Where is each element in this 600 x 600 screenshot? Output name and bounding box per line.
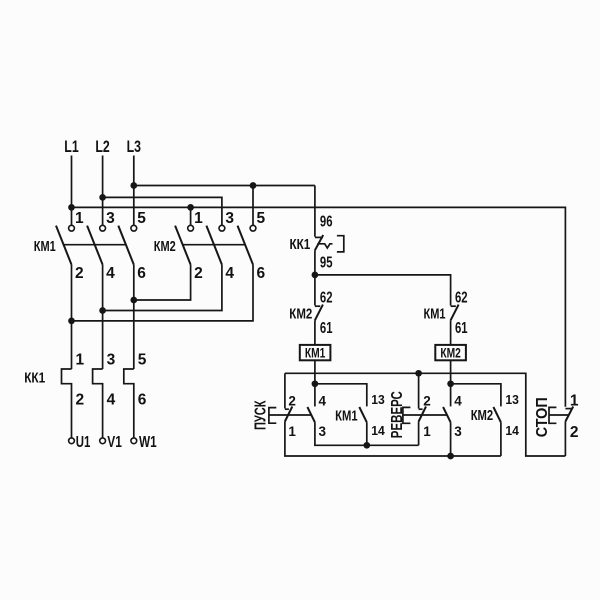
- KM1 contact terminal circle 5: [131, 225, 137, 231]
- junction REVERS NO to bus B: [447, 453, 454, 460]
- svg-text:КК1: КК1: [24, 369, 45, 386]
- KM2 contact blade 3-4: [206, 226, 222, 265]
- svg-text:3: 3: [225, 210, 234, 227]
- wire node95 to KM2 coil branch: [315, 275, 451, 306]
- relay contact KK1 96-95 top wire: [314, 186, 316, 237]
- KM1 contact blade 1-2: [56, 226, 72, 265]
- wire KM1 coil to start node: [314, 360, 316, 384]
- KM1 contact terminal circle 3: [100, 225, 106, 231]
- PUSK NO bottom wire to bus A: [315, 422, 419, 445]
- svg-text:3: 3: [454, 424, 462, 439]
- KM2 contact blade 1-2: [175, 226, 191, 265]
- wire KM1 coil node to aux branch: [315, 384, 367, 407]
- KK1 heater element phase A: [62, 369, 72, 438]
- svg-text:4: 4: [107, 392, 116, 409]
- svg-text:V1: V1: [107, 434, 122, 451]
- svg-text:6: 6: [137, 265, 146, 282]
- KM1 interlock bottom wire: [450, 320, 452, 345]
- STOP NC seat tick: [565, 408, 572, 410]
- REVERS NO blade: [443, 407, 451, 422]
- svg-text:5: 5: [138, 352, 147, 369]
- svg-text:4: 4: [319, 393, 327, 408]
- KM1 contact blade 3-4: [87, 226, 103, 265]
- svg-text:4: 4: [106, 265, 115, 282]
- REVERS NO bottom wire: [450, 422, 452, 456]
- KM2 interlock blade: [315, 305, 323, 321]
- wire control top rail to stop return: [285, 373, 566, 456]
- svg-text:62: 62: [320, 290, 333, 307]
- PUSK actuator rod: [269, 414, 312, 416]
- KM1 linkage bar: [64, 244, 126, 246]
- svg-text:КМ2: КМ2: [471, 407, 494, 424]
- KK1 thermal release linkage: [317, 244, 332, 248]
- KM2 aux blade: [493, 407, 501, 422]
- svg-text:КМ1: КМ1: [34, 238, 56, 255]
- wire L2 bus to KM2 pin3: [103, 197, 222, 225]
- KK1 thermal release bracket: [337, 236, 344, 252]
- KK1 heater element phase B: [93, 369, 103, 438]
- REVERS NO contact top wire: [450, 384, 452, 407]
- junction KM2 coil node: [447, 380, 454, 387]
- svg-text:14: 14: [505, 423, 519, 438]
- REVERS NC contact top wire: [418, 373, 420, 408]
- wire L1 vertical drop: [71, 156, 73, 226]
- svg-text:13: 13: [505, 392, 519, 407]
- STOP actuator rod: [549, 414, 568, 416]
- junction KM1 aux to bus A: [363, 442, 370, 449]
- junction KM1 coil node: [312, 380, 319, 387]
- KM1 aux bottom wire: [366, 422, 368, 445]
- wire KM2 out 4 crossover to phase B: [103, 265, 222, 311]
- svg-text:2: 2: [288, 393, 296, 408]
- svg-text:4: 4: [225, 265, 234, 282]
- REVERS NC seat tick: [419, 408, 423, 410]
- junction top rail to REVERS NC: [415, 370, 422, 377]
- junction crossover at phase B: [99, 307, 106, 314]
- REVERS NC bottom wire: [418, 422, 420, 446]
- wire L3 vertical drop: [133, 156, 135, 226]
- PUSK NC bottom wire to bus B: [285, 422, 501, 457]
- wire KM1 out phase A down: [71, 265, 73, 369]
- svg-text:L1: L1: [64, 137, 78, 156]
- svg-text:U1: U1: [76, 434, 91, 451]
- wire KM2 pin5 drop: [252, 186, 254, 226]
- KM1 contact terminal circle 1: [69, 225, 75, 231]
- svg-text:КМ1: КМ1: [305, 345, 326, 361]
- wire L1 bus to STOP column: [72, 207, 566, 406]
- svg-text:W1: W1: [139, 434, 157, 451]
- wire KM2 pin1 drop: [190, 207, 192, 225]
- svg-text:3: 3: [106, 210, 115, 227]
- wire KM2 out 6 crossover to phase A: [72, 265, 254, 321]
- svg-text:2: 2: [76, 392, 85, 409]
- motor terminal circle W1: [131, 438, 137, 444]
- coil KM1 box: [300, 345, 331, 360]
- KM2 contact terminal circle 5: [250, 225, 256, 231]
- STOP NC bottom wire: [564, 422, 566, 457]
- svg-text:96: 96: [320, 213, 333, 230]
- KM2 linkage bar: [183, 244, 246, 246]
- junction crossover at phase A: [68, 318, 75, 325]
- motor terminal circle U1: [69, 438, 75, 444]
- wire L2 vertical drop: [102, 156, 104, 226]
- KM2 contact terminal circle 1: [188, 225, 194, 231]
- wire KM2 coil node to aux branch: [451, 384, 501, 407]
- KM2 interlock seat tick: [315, 305, 320, 307]
- svg-text:6: 6: [257, 265, 266, 282]
- junction L1 bus to KM2 pin1: [187, 204, 194, 211]
- KK1 contact seat tick: [315, 236, 323, 238]
- svg-text:1: 1: [288, 424, 296, 439]
- PUSK NC seat tick: [285, 408, 289, 410]
- PUSK NC contact top wire: [284, 373, 286, 408]
- junction L3 bus at L3 drop: [130, 182, 137, 189]
- svg-text:2: 2: [570, 424, 579, 441]
- junction L3 bus to KM2 pin5: [250, 182, 257, 189]
- svg-text:КМ2: КМ2: [154, 238, 176, 255]
- svg-text:1: 1: [76, 352, 85, 369]
- svg-text:1: 1: [423, 424, 431, 439]
- svg-text:L3: L3: [127, 137, 141, 156]
- KM2 interlock bottom wire: [314, 320, 316, 345]
- interlock contact KM2 61-62 top wire: [314, 275, 316, 306]
- svg-text:КМ2: КМ2: [440, 345, 461, 361]
- svg-text:1: 1: [570, 392, 579, 409]
- svg-text:6: 6: [138, 392, 147, 409]
- KK1 contact blade: [315, 235, 323, 250]
- svg-text:62: 62: [455, 290, 468, 307]
- wire KM2 coil to reverse node: [450, 360, 452, 384]
- PUSK NO blade: [307, 407, 315, 422]
- REVERS actuator bracket: [403, 407, 411, 423]
- svg-text:3: 3: [319, 424, 327, 439]
- svg-text:5: 5: [257, 210, 266, 227]
- svg-text:1: 1: [75, 210, 84, 227]
- KM2 contact terminal circle 3: [219, 225, 225, 231]
- KM2 aux bottom wire: [500, 422, 502, 456]
- svg-text:ПУСК: ПУСК: [253, 400, 270, 430]
- svg-text:КМ2: КМ2: [289, 306, 312, 323]
- svg-text:14: 14: [371, 423, 385, 438]
- svg-text:2: 2: [194, 265, 203, 282]
- svg-text:2: 2: [423, 393, 431, 408]
- svg-text:2: 2: [75, 265, 84, 282]
- svg-text:95: 95: [320, 254, 333, 271]
- motor terminal circle V1: [100, 438, 106, 444]
- KM2 contact blade 5-6: [238, 226, 254, 265]
- wire KM1 out phase C down: [133, 265, 135, 369]
- KM1 aux blade: [359, 407, 367, 422]
- junction crossover at phase C: [130, 297, 137, 304]
- svg-text:13: 13: [371, 392, 385, 407]
- KM1 contact blade 5-6: [118, 226, 134, 265]
- REVERS NC blade: [419, 407, 426, 422]
- PUSK actuator bracket: [269, 408, 276, 424]
- svg-text:61: 61: [455, 320, 468, 337]
- coil KM2 box: [435, 345, 466, 360]
- REVERS actuator rod: [403, 414, 447, 416]
- interlock contact KM1 61-62 seat tick: [451, 305, 456, 307]
- wire L3 bus to KK1 column: [134, 185, 315, 187]
- svg-text:61: 61: [320, 320, 333, 337]
- node 95 junction: [312, 272, 319, 279]
- STOP NC blade: [565, 407, 573, 422]
- KK1 contact bottom wire: [314, 250, 316, 275]
- svg-text:5: 5: [137, 210, 146, 227]
- svg-text:L2: L2: [95, 137, 109, 156]
- wire KM2 out 2 crossover to phase C: [134, 265, 191, 300]
- svg-text:3: 3: [107, 352, 116, 369]
- KK1 heater element phase C: [124, 369, 134, 438]
- svg-text:КМ1: КМ1: [424, 305, 446, 322]
- wire KM1 out phase B down: [102, 265, 104, 369]
- svg-text:4: 4: [454, 393, 462, 408]
- svg-text:КМ1: КМ1: [335, 407, 358, 424]
- svg-text:1: 1: [194, 210, 203, 227]
- junction L1 bus at L1 drop: [68, 204, 75, 211]
- PUSK NC blade: [285, 407, 292, 422]
- junction L2 bus at L2 drop: [99, 194, 106, 201]
- svg-text:КК1: КК1: [290, 236, 311, 253]
- KM1 interlock blade: [451, 305, 459, 321]
- PUSK NO contact top wire: [314, 384, 316, 407]
- STOP actuator bracket: [549, 407, 556, 423]
